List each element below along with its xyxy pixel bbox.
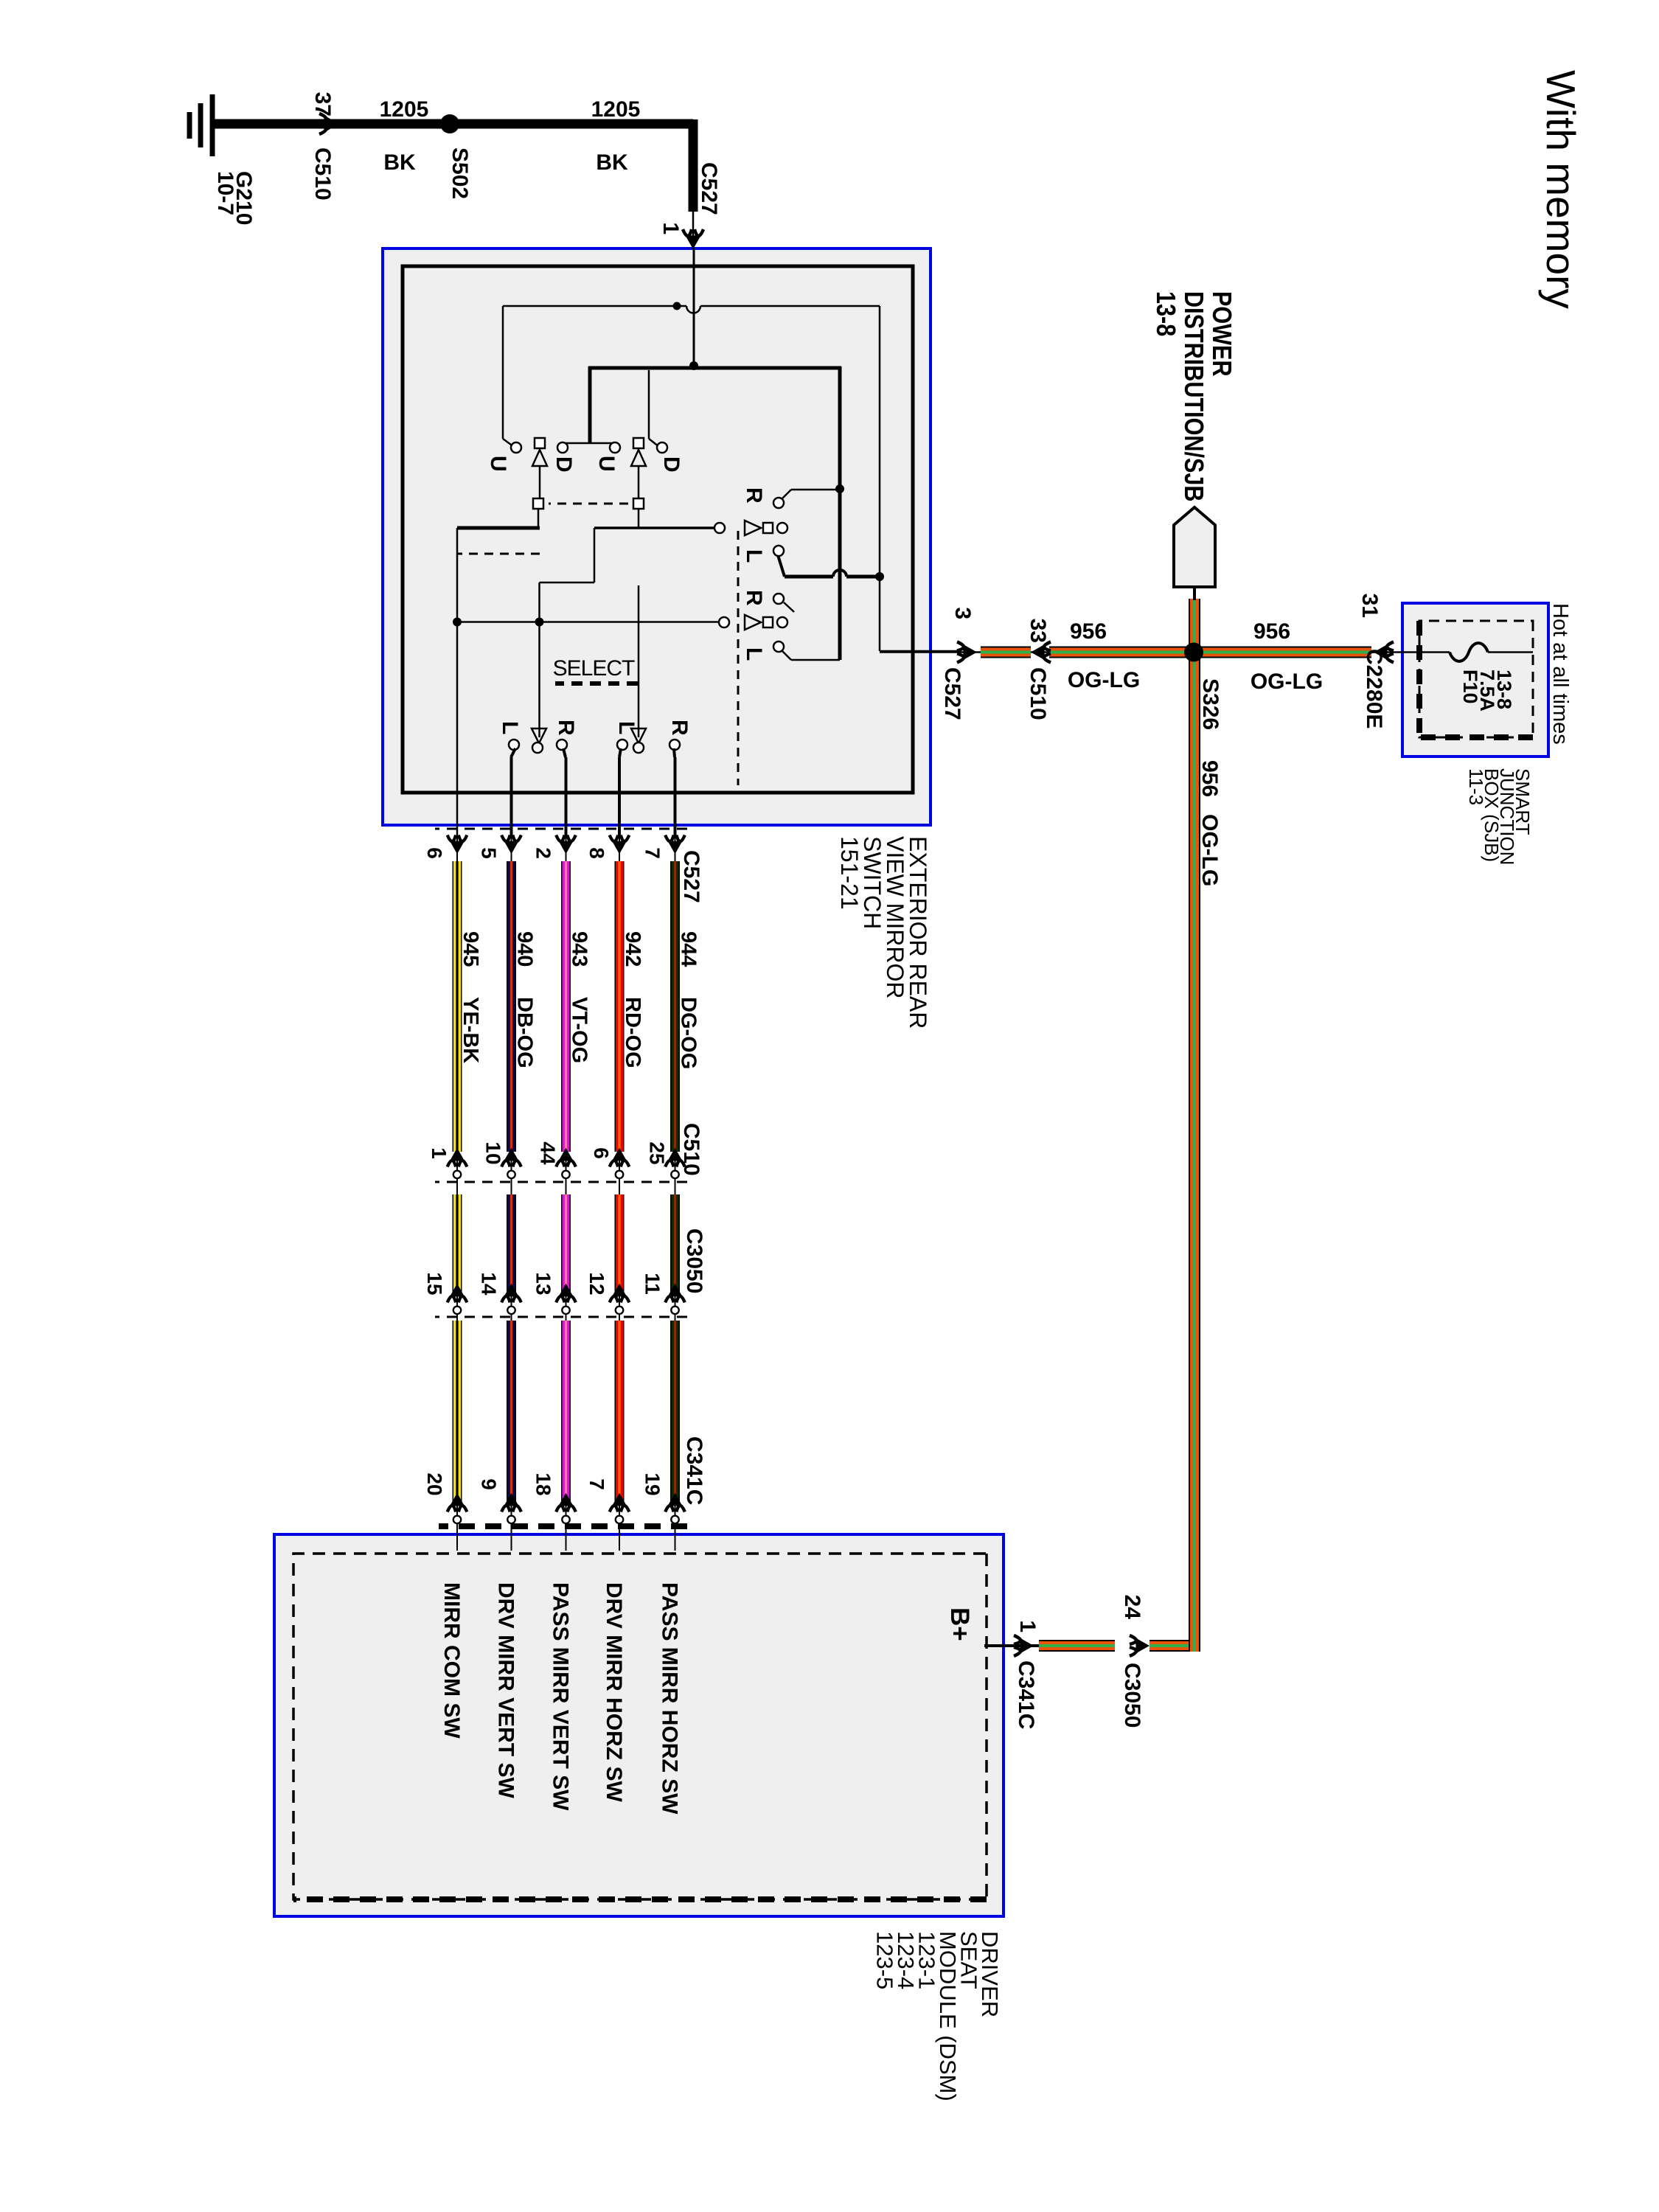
svg-text:BK: BK [383, 150, 416, 175]
svg-text:VIEW MIRROR: VIEW MIRROR [882, 836, 908, 998]
svg-text:Hot at all times: Hot at all times [1548, 603, 1572, 745]
svg-text:956: 956 [1070, 619, 1107, 644]
svg-text:EXTERIOR REAR: EXTERIOR REAR [905, 836, 931, 1029]
svg-text:B+: B+ [945, 1607, 974, 1641]
svg-text:940: 940 [513, 931, 537, 967]
svg-text:PASS MIRR HORZ SW: PASS MIRR HORZ SW [658, 1582, 682, 1815]
svg-text:D: D [552, 456, 576, 473]
svg-text:20: 20 [423, 1472, 446, 1495]
svg-text:1: 1 [658, 222, 683, 234]
svg-text:DRV MIRR VERT SW: DRV MIRR VERT SW [494, 1582, 518, 1798]
svg-text:9: 9 [478, 1478, 501, 1490]
svg-text:PASS MIRR VERT SW: PASS MIRR VERT SW [549, 1582, 573, 1811]
svg-text:25: 25 [646, 1141, 669, 1164]
svg-text:14: 14 [478, 1272, 501, 1295]
svg-text:L: L [742, 549, 766, 563]
svg-text:OG-LG: OG-LG [1068, 668, 1140, 692]
svg-text:C3050: C3050 [682, 1228, 706, 1293]
svg-text:11-3: 11-3 [1465, 768, 1487, 805]
svg-text:6: 6 [590, 1147, 613, 1159]
svg-text:12: 12 [585, 1272, 608, 1295]
svg-text:D: D [659, 456, 684, 473]
svg-text:7: 7 [641, 847, 664, 859]
svg-text:3: 3 [950, 607, 975, 619]
svg-text:DISTRIBUTION/SJB: DISTRIBUTION/SJB [1178, 291, 1208, 501]
svg-text:POWER: POWER [1206, 291, 1236, 377]
svg-text:U: U [486, 456, 510, 472]
svg-text:2: 2 [532, 847, 555, 859]
svg-text:33: 33 [1026, 619, 1050, 643]
svg-text:S326: S326 [1198, 678, 1222, 730]
svg-text:S502: S502 [448, 147, 472, 199]
svg-text:DG-OG: DG-OG [677, 997, 700, 1069]
svg-text:DRV MIRR HORZ SW: DRV MIRR HORZ SW [602, 1582, 626, 1802]
svg-text:11: 11 [641, 1273, 664, 1295]
svg-text:956: 956 [1197, 760, 1222, 797]
svg-text:C3050: C3050 [1120, 1663, 1144, 1728]
svg-text:RD-OG: RD-OG [621, 997, 644, 1068]
svg-text:OG-LG: OG-LG [1197, 814, 1222, 886]
svg-text:SELECT: SELECT [553, 656, 635, 681]
svg-text:945: 945 [459, 931, 482, 967]
svg-text:R: R [554, 720, 578, 736]
svg-text:C527: C527 [940, 667, 964, 720]
svg-text:C341C: C341C [1014, 1660, 1038, 1729]
svg-text:OG-LG: OG-LG [1251, 669, 1323, 694]
svg-text:19: 19 [641, 1472, 664, 1495]
svg-text:SWITCH: SWITCH [859, 836, 886, 929]
svg-text:C510: C510 [1026, 667, 1050, 720]
svg-text:31: 31 [1357, 594, 1382, 618]
svg-text:18: 18 [532, 1472, 555, 1495]
svg-text:VT-OG: VT-OG [568, 997, 591, 1063]
svg-text:5: 5 [478, 847, 501, 859]
svg-text:YE-BK: YE-BK [459, 997, 482, 1063]
svg-text:C527: C527 [679, 850, 703, 903]
svg-text:R: R [667, 720, 692, 736]
svg-text:1: 1 [428, 1147, 451, 1159]
svg-text:BK: BK [596, 150, 628, 175]
svg-text:With memory: With memory [1538, 70, 1584, 309]
svg-text:37: 37 [310, 92, 335, 116]
svg-text:15: 15 [423, 1272, 446, 1295]
svg-text:1: 1 [1015, 1620, 1040, 1632]
svg-text:C527: C527 [697, 162, 721, 215]
svg-text:8: 8 [585, 847, 608, 859]
svg-text:C341C: C341C [682, 1436, 706, 1505]
svg-text:C510: C510 [310, 147, 335, 201]
svg-text:R: R [742, 487, 766, 504]
svg-text:L: L [742, 647, 766, 661]
svg-text:F10: F10 [1459, 669, 1481, 704]
svg-text:7: 7 [585, 1478, 608, 1490]
svg-text:956: 956 [1253, 619, 1290, 644]
svg-text:123-5: 123-5 [872, 1931, 898, 1989]
svg-text:R: R [742, 590, 766, 606]
svg-text:10: 10 [482, 1141, 505, 1164]
svg-text:942: 942 [621, 931, 644, 967]
svg-text:1205: 1205 [591, 97, 641, 122]
svg-text:151-21: 151-21 [836, 836, 863, 910]
svg-text:6: 6 [423, 847, 446, 859]
svg-text:1205: 1205 [380, 97, 429, 122]
svg-text:13: 13 [532, 1272, 555, 1295]
svg-text:MIRR COM SW: MIRR COM SW [439, 1582, 464, 1739]
svg-text:13-8: 13-8 [1150, 291, 1180, 336]
svg-text:944: 944 [677, 931, 700, 967]
svg-text:L: L [498, 721, 522, 734]
svg-text:44: 44 [537, 1141, 560, 1165]
svg-text:C510: C510 [679, 1123, 703, 1176]
svg-text:943: 943 [568, 931, 591, 967]
svg-text:10-7: 10-7 [213, 171, 237, 215]
svg-text:DB-OG: DB-OG [513, 997, 537, 1068]
svg-text:24: 24 [1120, 1595, 1144, 1620]
svg-text:L: L [614, 721, 639, 734]
svg-text:U: U [594, 456, 619, 472]
svg-text:C2280E: C2280E [1362, 649, 1386, 728]
